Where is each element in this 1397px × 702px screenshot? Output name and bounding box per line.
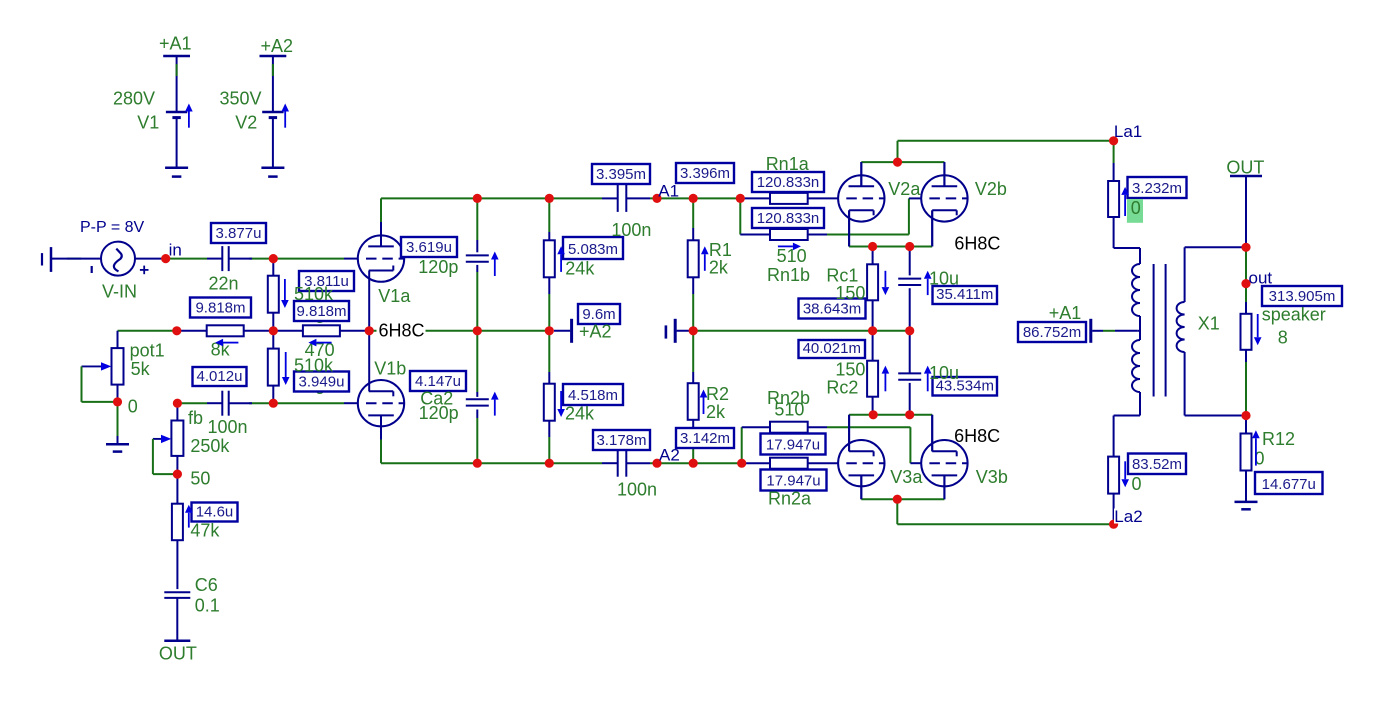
svg-text:40.021m: 40.021m <box>803 340 861 357</box>
svg-text:4.012u: 4.012u <box>197 368 243 385</box>
svg-text:3.949u: 3.949u <box>299 374 345 391</box>
svg-text:510: 510 <box>774 400 804 420</box>
svg-text:V3a: V3a <box>890 467 923 487</box>
svg-text:86.752m: 86.752m <box>1023 324 1081 341</box>
svg-text:Rn1a: Rn1a <box>766 154 810 174</box>
svg-text:5.083m: 5.083m <box>568 241 618 258</box>
svg-text:3.395m: 3.395m <box>596 166 646 183</box>
svg-text:120p: 120p <box>419 403 459 423</box>
svg-text:V3b: V3b <box>976 467 1008 487</box>
svg-text:510: 510 <box>777 246 807 266</box>
svg-text:V1: V1 <box>137 113 159 133</box>
svg-text:120.833n: 120.833n <box>757 174 820 191</box>
svg-text:100n: 100n <box>617 480 657 500</box>
svg-text:3.142m: 3.142m <box>680 430 730 447</box>
svg-text:+A1: +A1 <box>1049 303 1082 323</box>
svg-text:3.232m: 3.232m <box>1132 180 1182 197</box>
svg-text:2k: 2k <box>706 402 726 422</box>
svg-text:50: 50 <box>190 468 210 488</box>
svg-text:R2: R2 <box>706 384 729 404</box>
svg-text:OUT: OUT <box>159 644 197 664</box>
svg-text:P-P = 8V: P-P = 8V <box>80 219 145 236</box>
svg-text:+A1: +A1 <box>159 34 192 54</box>
svg-text:14.677u: 14.677u <box>1262 476 1316 493</box>
svg-text:0: 0 <box>1131 198 1141 218</box>
svg-text:9.818m: 9.818m <box>195 300 245 317</box>
svg-text:83.52m: 83.52m <box>1132 456 1182 473</box>
svg-text:speaker: speaker <box>1262 305 1326 325</box>
svg-text:V-IN: V-IN <box>102 282 137 302</box>
svg-text:R12: R12 <box>1262 429 1295 449</box>
svg-text:9.6m: 9.6m <box>582 306 615 323</box>
svg-text:24k: 24k <box>565 404 595 424</box>
svg-text:22n: 22n <box>209 274 239 294</box>
svg-text:35.411m: 35.411m <box>936 286 993 303</box>
svg-text:510k: 510k <box>294 284 334 304</box>
svg-text:0.1: 0.1 <box>195 596 220 616</box>
svg-text:C6: C6 <box>195 575 218 595</box>
svg-text:Rc2: Rc2 <box>826 378 858 398</box>
svg-text:250k: 250k <box>190 436 230 456</box>
svg-text:38.643m: 38.643m <box>803 301 861 318</box>
svg-text:350V: 350V <box>220 89 262 109</box>
svg-text:10u: 10u <box>929 269 959 289</box>
svg-text:V2: V2 <box>235 113 257 133</box>
svg-text:0: 0 <box>128 397 138 417</box>
svg-text:in: in <box>169 241 182 260</box>
svg-text:47k: 47k <box>190 521 220 541</box>
svg-text:100n: 100n <box>611 220 651 240</box>
svg-text:313.905m: 313.905m <box>1269 288 1336 305</box>
svg-text:V1a: V1a <box>378 286 411 306</box>
svg-text:6H8C: 6H8C <box>379 321 425 341</box>
svg-text:120.833n: 120.833n <box>757 210 820 227</box>
svg-text:4.518m: 4.518m <box>568 387 618 404</box>
svg-text:pot1: pot1 <box>130 341 165 361</box>
svg-text:14.6u: 14.6u <box>196 504 234 521</box>
svg-text:100n: 100n <box>208 417 248 437</box>
svg-text:Rn1b: Rn1b <box>767 265 810 285</box>
svg-text:+A2: +A2 <box>579 322 612 342</box>
svg-text:fb: fb <box>188 408 203 428</box>
svg-text:120p: 120p <box>418 257 458 277</box>
svg-text:3.877u: 3.877u <box>216 225 262 242</box>
svg-text:9.818m: 9.818m <box>296 303 346 320</box>
svg-text:280V: 280V <box>113 89 155 109</box>
svg-text:17.947u: 17.947u <box>766 437 820 454</box>
svg-text:3.396m: 3.396m <box>680 165 730 182</box>
svg-text:3.619u: 3.619u <box>406 239 452 256</box>
svg-text:A2: A2 <box>659 446 680 465</box>
svg-text:5k: 5k <box>131 359 151 379</box>
svg-text:2k: 2k <box>709 257 729 277</box>
svg-text:6H8C: 6H8C <box>954 426 1000 446</box>
svg-text:Rn2a: Rn2a <box>768 489 812 509</box>
svg-text:A1: A1 <box>658 182 679 201</box>
svg-text:V1b: V1b <box>374 358 406 378</box>
svg-text:0: 0 <box>1132 474 1142 494</box>
svg-text:X1: X1 <box>1198 314 1220 334</box>
svg-text:V2b: V2b <box>975 179 1007 199</box>
svg-text:+A2: +A2 <box>261 36 294 56</box>
svg-text:10u: 10u <box>929 363 959 383</box>
svg-text:3.178m: 3.178m <box>596 432 646 449</box>
svg-text:La2: La2 <box>1114 507 1142 526</box>
svg-text:6H8C: 6H8C <box>954 234 1000 254</box>
svg-text:150: 150 <box>835 283 865 303</box>
svg-text:17.947u: 17.947u <box>766 473 820 490</box>
svg-text:V2a: V2a <box>888 179 921 199</box>
svg-text:24k: 24k <box>565 258 595 278</box>
svg-text:8: 8 <box>1278 328 1288 348</box>
svg-text:out: out <box>1249 269 1273 288</box>
svg-text:OUT: OUT <box>1226 158 1264 178</box>
svg-text:La1: La1 <box>1114 122 1142 141</box>
